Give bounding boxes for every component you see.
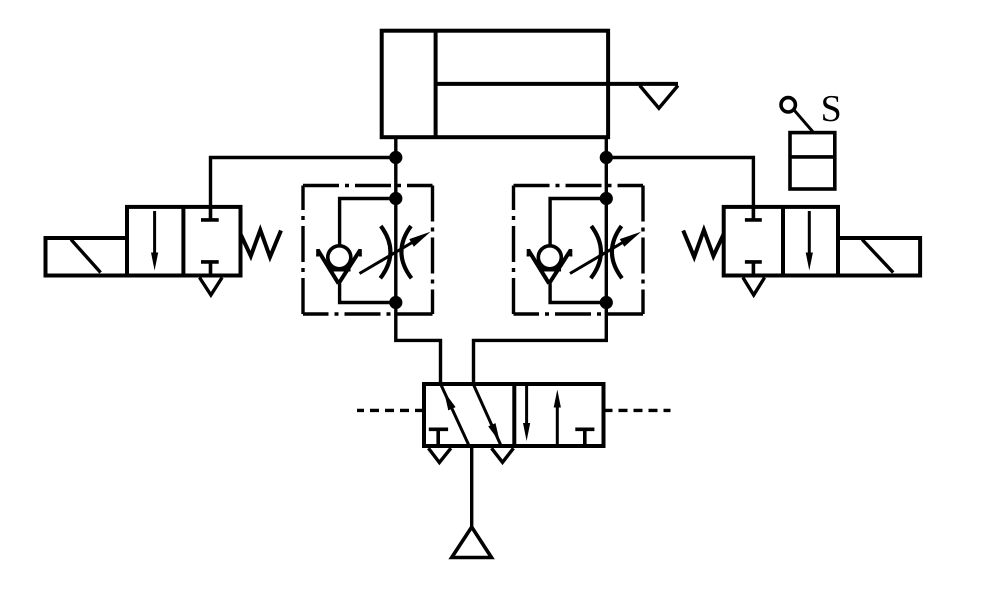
valve V2 blocked port T top bbox=[745, 208, 762, 220]
valve V2 exhaust triangle bbox=[743, 278, 765, 296]
limit switch S lever bbox=[794, 110, 813, 132]
V3 up arrowhead bbox=[554, 390, 561, 408]
valve V2 (right 3/2) body bbox=[724, 207, 838, 276]
V3 exhaust triangle left bbox=[428, 448, 451, 462]
pressure source triangle bbox=[452, 527, 492, 558]
FC2 seat line bbox=[539, 268, 561, 271]
FC2 check valve ball bbox=[538, 246, 561, 269]
valve V1 blocked port T bottom bbox=[201, 262, 219, 274]
FC1 check valve branch lower bbox=[340, 284, 396, 303]
cylinder A (double-acting) body bbox=[382, 31, 608, 138]
wire: supply port down bbox=[470, 446, 473, 527]
V3 path A arrowhead bbox=[444, 392, 456, 411]
wire: left pilot line to valve V1 bbox=[211, 158, 396, 209]
valve V1 flow arrowhead bbox=[151, 253, 158, 271]
wire: right pilot line to valve V2 bbox=[606, 158, 753, 209]
FC1 seat left serif bbox=[316, 249, 319, 257]
FC1 variable arrowhead bbox=[409, 232, 430, 247]
wire: cylinder left port down to main valve turn bbox=[396, 136, 441, 386]
FC2 check valve seat right arm bbox=[549, 250, 571, 284]
flow control FC2 enclosure (dash-dot) bbox=[514, 186, 644, 315]
FC1 check valve ball bbox=[328, 246, 351, 269]
junction node bbox=[389, 151, 402, 164]
V3 exhaust triangle right bbox=[492, 448, 514, 462]
FC2 seat left serif bbox=[527, 249, 530, 257]
FC2 seat right serif bbox=[569, 249, 572, 257]
FC1 check valve branch upper bbox=[340, 199, 396, 247]
junction node bbox=[600, 296, 613, 309]
valve V1 blocked port T top bbox=[201, 208, 219, 220]
valve V2 actuator diagonal bbox=[862, 240, 893, 273]
limit switch S roller bbox=[781, 98, 795, 112]
valve V2 flow arrow (down) bbox=[808, 211, 811, 262]
valve V2 return spring bbox=[683, 230, 724, 257]
valve V1 actuator diagonal bbox=[71, 240, 101, 273]
FC1 seat right serif bbox=[359, 249, 362, 257]
V3 flow arrow down (right box) bbox=[525, 386, 528, 432]
FC1 variable arrow bbox=[360, 236, 425, 274]
limit switch S body bbox=[790, 133, 835, 189]
valve V1 return spring bbox=[241, 230, 282, 257]
FC2 variable arrowhead bbox=[620, 232, 641, 247]
FC2 throttle left arc bbox=[591, 226, 601, 278]
FC1 check valve seat left arm bbox=[318, 250, 339, 284]
FC1 seat line bbox=[329, 268, 351, 271]
V3 blocked port T bottom-left bbox=[429, 429, 448, 444]
flow control FC1 enclosure (dash-dot) bbox=[303, 186, 433, 315]
cylinder A rod bbox=[437, 82, 678, 86]
valve V2 flow arrowhead bbox=[806, 253, 813, 271]
V3 flow arrow up (right box) bbox=[556, 398, 559, 444]
valve V1 exhaust triangle bbox=[200, 278, 223, 296]
V3 pilot line right (dashed) bbox=[604, 409, 671, 412]
limit switch S body divider bbox=[790, 155, 835, 159]
V3 crossed path A (supply to port A) bbox=[441, 386, 468, 445]
FC2 check valve seat left arm bbox=[528, 250, 549, 284]
cylinder A rod end flag bbox=[640, 86, 678, 109]
wire: cylinder right port down to main valve turn bbox=[474, 136, 607, 386]
FC1 throttle left arc bbox=[380, 226, 390, 278]
FC2 throttle right arc bbox=[612, 226, 622, 278]
junction node bbox=[600, 192, 613, 205]
valve V2 blocked port T bottom bbox=[745, 262, 762, 274]
junction node bbox=[600, 151, 613, 164]
valve V1 (left 3/2) body bbox=[127, 207, 241, 276]
junction node bbox=[389, 296, 402, 309]
V3 crossed path B (port B to exhaust) bbox=[474, 386, 501, 445]
label S bbox=[823, 96, 839, 122]
V3 down arrowhead bbox=[523, 423, 530, 441]
cylinder A piston bbox=[434, 32, 438, 136]
main valve V3 divider bbox=[512, 384, 516, 446]
main valve V3 body bbox=[424, 384, 604, 446]
valve V1 body divider bbox=[181, 207, 185, 276]
valve V1 flow arrow (down) bbox=[153, 211, 156, 262]
FC2 check valve branch lower bbox=[550, 284, 606, 303]
FC2 check valve branch upper bbox=[550, 199, 606, 247]
FC1 throttle right arc bbox=[401, 226, 411, 278]
valve V1 actuator box bbox=[46, 238, 128, 276]
valve V2 body divider bbox=[781, 207, 785, 276]
V3 blocked port T bottom-right bbox=[575, 429, 594, 444]
FC2 variable arrow bbox=[570, 236, 635, 274]
V3 pilot line left (dashed) bbox=[357, 409, 424, 412]
valve V2 actuator box bbox=[838, 238, 920, 276]
V3 path B arrowhead bbox=[488, 423, 500, 442]
junction node bbox=[389, 192, 402, 205]
FC1 check valve seat right arm bbox=[339, 250, 361, 284]
